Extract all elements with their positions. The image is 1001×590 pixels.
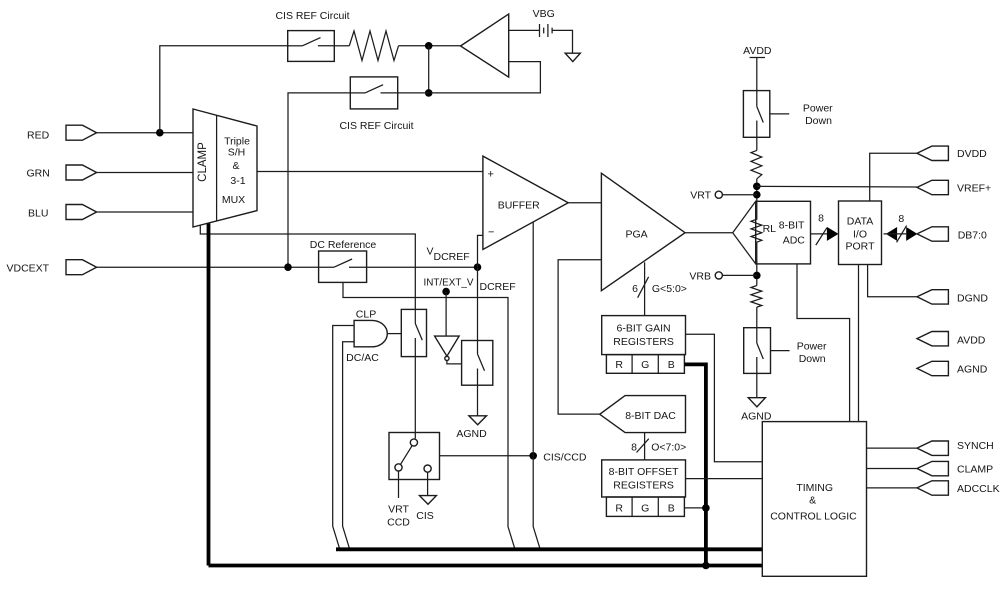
- resistor R2 (top): [751, 150, 762, 178]
- svg-text:G: G: [641, 359, 649, 371]
- node offsetB/thick: [702, 504, 710, 512]
- svg-text:V: V: [427, 246, 434, 258]
- wire node A to node B: [428, 46, 430, 93]
- wire DAC offset input: [644, 433, 646, 460]
- dac U7 8-BIT DAC: [600, 396, 686, 433]
- wire DVDD to data port top: [870, 153, 917, 201]
- bus gain B thick drop: [684, 364, 706, 565]
- svg-text:RED: RED: [27, 129, 50, 141]
- svg-text:Power: Power: [797, 340, 827, 352]
- svg-text:VREF+: VREF+: [957, 183, 991, 195]
- wire offset B to thick bus: [684, 507, 706, 509]
- svg-text:GRN: GRN: [27, 167, 50, 179]
- svg-text:VBG: VBG: [533, 8, 555, 20]
- node VRB: [753, 272, 761, 280]
- svg-text:ADC: ADC: [783, 234, 806, 246]
- svg-text:DCREF: DCREF: [434, 251, 470, 263]
- wire VDCEXT line (right of DC ref switch): [349, 266, 478, 268]
- block offset RGB cells: [606, 497, 684, 516]
- wire S6 left contact to VRT CCD: [398, 471, 400, 498]
- svg-text:VRT: VRT: [388, 503, 409, 515]
- wire clamp thick bus drop: [207, 224, 211, 566]
- wire S7 control tap: [770, 113, 789, 115]
- port RED connector: [66, 125, 97, 140]
- wire ADC to data port: [811, 233, 828, 235]
- svg-text:I/O: I/O: [853, 228, 867, 240]
- wire fan lower: [733, 233, 756, 264]
- selector S6 box: [389, 433, 440, 480]
- wire S6 right contact to CIS ground: [427, 472, 429, 495]
- wire ADCCLK: [867, 487, 918, 489]
- svg-text:REGISTERS: REGISTERS: [613, 480, 674, 492]
- wire offset registers to timing: [686, 478, 763, 480]
- svg-text:8: 8: [898, 213, 904, 225]
- wire U1 feedback loop: [431, 62, 540, 93]
- arrow DB in (right head): [906, 227, 917, 241]
- svg-text:+: +: [488, 169, 494, 181]
- block 6-BIT GAIN REGISTERS: [602, 316, 686, 355]
- svg-text:AVDD: AVDD: [743, 45, 772, 57]
- wire S4 to selector: [414, 357, 416, 439]
- node A: [425, 42, 433, 50]
- svg-text:8: 8: [818, 213, 824, 225]
- wire data port bottom to timing: [858, 265, 860, 422]
- svg-text:CLAMP: CLAMP: [957, 463, 993, 475]
- block U2 Triple S/H MUX trapezoid: [193, 109, 257, 227]
- svg-text:MUX: MUX: [222, 194, 245, 206]
- wire switch to resistor: [334, 45, 349, 47]
- wire S8 to AGND: [756, 373, 758, 397]
- svg-text:&: &: [232, 160, 239, 172]
- wire ADC box bottom to VRB node: [756, 264, 758, 286]
- switch S8 power down box 2: [744, 328, 771, 374]
- block U8 8-BIT ADC: [756, 201, 811, 264]
- wire S8 control tap: [771, 350, 790, 352]
- wire S7 to resistor: [756, 137, 758, 150]
- switch S7 blade: [756, 91, 758, 107]
- switch S7 power down box: [743, 91, 769, 138]
- svg-text:G: G: [641, 503, 649, 515]
- switch S1 blade: [288, 45, 303, 47]
- svg-text:DC Reference: DC Reference: [310, 239, 377, 251]
- node VREF tap: [753, 183, 761, 191]
- svg-text:CIS REF Circuit: CIS REF Circuit: [275, 10, 349, 22]
- inverter U3 (down-pointing): [435, 336, 460, 356]
- switch S3 DC Reference box: [319, 251, 367, 282]
- slash db bus: [897, 226, 907, 243]
- svg-text:CCD: CCD: [387, 516, 410, 528]
- svg-text:VRT: VRT: [690, 190, 711, 202]
- terminal VRB circle: [715, 272, 722, 279]
- port GRN connector: [66, 165, 97, 180]
- port VREF+ connector: [917, 180, 948, 194]
- port CLAMP connector: [917, 461, 948, 475]
- resistor RL: [751, 201, 762, 264]
- arrowhead adc to port: [827, 227, 839, 241]
- wire U2 output to buffer: [257, 171, 483, 173]
- block gain RGB cells: [606, 355, 684, 374]
- svg-text:R: R: [615, 503, 623, 515]
- wire SYNCH: [867, 447, 918, 449]
- wire resistor to VRT node: [756, 179, 758, 202]
- svg-text:INT/EXT_V: INT/EXT_V: [424, 277, 474, 289]
- wire ADC bottom to timing: [797, 264, 850, 422]
- svg-text:8-BIT DAC: 8-BIT DAC: [625, 410, 676, 422]
- svg-text:6-BIT GAIN: 6-BIT GAIN: [617, 323, 671, 335]
- wire S2 left drop to VDCEXT node: [288, 93, 350, 267]
- ground AGND (chain): [748, 398, 765, 407]
- svg-text:CIS/CCD: CIS/CCD: [543, 451, 587, 463]
- slash offset bus: [637, 439, 649, 453]
- node VDCEXT/DCREF: [474, 263, 482, 271]
- node VDCEXT/CISREF2: [284, 263, 292, 271]
- wire RED node up to CIS REF circuit: [160, 46, 288, 133]
- port AGND connector: [917, 361, 948, 375]
- svg-text:6: 6: [632, 283, 638, 295]
- wire S6 output to CIS/CCD node: [440, 455, 534, 457]
- svg-text:RL: RL: [763, 223, 777, 235]
- resistor R3 (bottom): [751, 286, 762, 308]
- wire INT/EXT node to inverter: [445, 292, 447, 337]
- svg-text:DCREF: DCREF: [480, 281, 516, 293]
- wire U4 input CLP from bus: [333, 326, 354, 550]
- port DGND connector: [917, 290, 948, 304]
- op-amp U1 (left-pointing): [461, 14, 509, 77]
- wire battery to ground: [552, 30, 572, 53]
- wire VDCEXT line (left of DC ref switch): [97, 266, 334, 268]
- svg-text:DATA: DATA: [847, 216, 873, 228]
- ground CIS: [420, 496, 437, 505]
- svg-text:AGND: AGND: [741, 410, 772, 422]
- wire DB bus link: [884, 233, 907, 235]
- svg-text:Down: Down: [805, 115, 832, 127]
- svg-text:Power: Power: [803, 102, 833, 114]
- node CIS/CCD: [529, 452, 537, 460]
- wire DCREF node up to buffer minus: [478, 235, 483, 267]
- wire BLU to clamp: [97, 211, 193, 213]
- switch S5 blade: [477, 341, 479, 355]
- amp U6 PGA: [601, 173, 685, 291]
- wire PGA ref input from DAC: [558, 260, 601, 414]
- svg-text:8-BIT OFFSET: 8-BIT OFFSET: [609, 466, 679, 478]
- svg-text:BUFFER: BUFFER: [498, 200, 540, 212]
- wire resistor to node A: [399, 45, 461, 47]
- svg-text:8: 8: [631, 442, 637, 454]
- wire CLAMP: [867, 468, 918, 470]
- svg-text:CIS REF Circuit: CIS REF Circuit: [339, 120, 413, 132]
- svg-text:BLU: BLU: [28, 207, 48, 219]
- terminal VRT circle: [715, 191, 722, 198]
- bubble U3: [445, 356, 449, 360]
- svg-text:DVDD: DVDD: [957, 148, 987, 160]
- svg-text:VDCEXT: VDCEXT: [7, 263, 50, 275]
- slash adc bus: [816, 228, 827, 245]
- wire U5 output to PGA: [568, 202, 601, 204]
- wire data port to DGND: [868, 265, 917, 297]
- port VDCEXT connector: [66, 260, 97, 275]
- svg-text:CLP: CLP: [356, 309, 376, 321]
- wire RED to clamp: [97, 132, 193, 134]
- svg-text:3-1: 3-1: [230, 175, 245, 187]
- resistor R1: [349, 31, 398, 61]
- svg-text:−: −: [488, 227, 494, 239]
- port BLU connector: [66, 205, 97, 220]
- bus lower thick horizontal: [209, 564, 763, 568]
- battery VBG: [540, 24, 553, 37]
- wire AVDD to power down switch: [756, 58, 758, 91]
- wire S2 to node B: [398, 92, 429, 94]
- svg-text:DB7:0: DB7:0: [958, 229, 987, 241]
- wire fan upper: [733, 201, 756, 232]
- wire resistor to power down 2: [756, 307, 758, 328]
- op-amp U5 BUFFER: [483, 156, 568, 249]
- svg-text:CONTROL LOGIC: CONTROL LOGIC: [770, 510, 857, 522]
- port SYNCH connector: [917, 441, 948, 455]
- wire GRN to clamp: [97, 172, 193, 174]
- port AVDD connector: [917, 332, 948, 346]
- power rail AVDD bar: [750, 57, 765, 59]
- svg-text:AVDD: AVDD: [957, 335, 986, 347]
- svg-text:8-BIT: 8-BIT: [779, 219, 805, 231]
- slash gain bus: [638, 277, 649, 298]
- svg-text:REGISTERS: REGISTERS: [613, 336, 674, 348]
- svg-text:PORT: PORT: [846, 241, 876, 253]
- switch S4 blade: [414, 309, 416, 323]
- wire VREF+ line: [757, 185, 917, 188]
- wire U4 output to switch S4: [387, 333, 401, 335]
- wire U3 output to switch S5: [447, 361, 462, 364]
- switch S8 blade: [756, 328, 758, 343]
- node B: [425, 89, 433, 97]
- wire U1 output to battery: [509, 29, 539, 31]
- selector S6 left contact: [395, 464, 402, 471]
- svg-text:ADCCLK: ADCCLK: [957, 483, 1000, 495]
- port DB7:0 connector: [917, 227, 948, 241]
- switch S1 CIS REF circuit box: [288, 31, 335, 62]
- svg-text:Down: Down: [799, 353, 826, 365]
- svg-text:CIS: CIS: [416, 510, 434, 522]
- svg-text:DC/AC: DC/AC: [346, 352, 379, 364]
- wire clamp control drop (thin): [200, 225, 415, 309]
- svg-text:TIMING: TIMING: [796, 482, 833, 494]
- arrow DB out (left head): [886, 227, 897, 241]
- port DVDD connector: [917, 146, 948, 160]
- block 8-BIT OFFSET REGISTERS: [602, 460, 686, 497]
- wire DCREF node down through S5 to ground: [477, 267, 479, 340]
- svg-text:&: &: [809, 494, 816, 506]
- wire PGA gain control: [644, 262, 646, 315]
- block U9 DATA I/O PORT: [839, 201, 882, 265]
- switch S2 blade: [350, 92, 365, 94]
- wire buffer minus tap down to CIS/CCD node: [533, 222, 540, 549]
- wire PGA output to ADC fan: [685, 232, 733, 234]
- svg-text:CLAMP: CLAMP: [197, 142, 209, 182]
- gate U4 AND (CLP/DCAC): [354, 320, 387, 346]
- ground AGND under S5: [469, 416, 487, 425]
- node INT/EXT_V: [442, 288, 450, 296]
- switch S5 box: [462, 341, 493, 386]
- node bus lower/gainB: [702, 562, 710, 570]
- svg-text:R: R: [615, 359, 623, 371]
- node RED/CISREF junction: [156, 129, 164, 137]
- svg-text:B: B: [668, 503, 675, 515]
- svg-text:AGND: AGND: [957, 364, 988, 376]
- block U10 TIMING CONTROL LOGIC: [762, 422, 866, 577]
- wire VRT terminal to node: [722, 194, 756, 196]
- wire S3 bottom tap to long drop: [343, 282, 515, 549]
- bus upper thick horizontal: [336, 547, 763, 551]
- wire gain registers to timing: [686, 334, 763, 462]
- svg-text:G<5:0>: G<5:0>: [652, 283, 687, 295]
- svg-text:PGA: PGA: [626, 229, 648, 241]
- svg-text:AGND: AGND: [456, 428, 487, 440]
- wire U4 input DC/AC from bus: [343, 342, 355, 550]
- switch S4 box: [401, 309, 426, 356]
- node VRT: [753, 191, 761, 199]
- selector S6 right contact: [424, 465, 431, 472]
- svg-text:S/H: S/H: [228, 147, 246, 159]
- svg-text:DGND: DGND: [957, 293, 988, 305]
- port ADCCLK connector: [917, 481, 948, 495]
- wire VRB terminal to node: [722, 274, 756, 276]
- svg-text:SYNCH: SYNCH: [957, 440, 994, 452]
- switch S2 CIS REF circuit box: [350, 77, 397, 109]
- switch S3 blade: [334, 259, 352, 267]
- svg-text:B: B: [668, 359, 675, 371]
- svg-text:VRB: VRB: [689, 270, 711, 282]
- ground (top right): [565, 53, 580, 61]
- selector S6 blade: [401, 446, 413, 465]
- selector S6 top contact: [410, 439, 417, 446]
- svg-text:O<7:0>: O<7:0>: [651, 442, 686, 454]
- divider U2 clamp partition: [216, 115, 218, 221]
